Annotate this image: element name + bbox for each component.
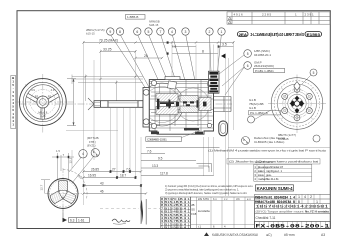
svg-text:●C): ●C) bbox=[266, 233, 272, 237]
bolt holes bbox=[282, 86, 313, 120]
svg-text:2 3 9 1: 2 3 9 1 bbox=[305, 12, 315, 16]
3 lobes bbox=[49, 180, 76, 204]
extension verticals bbox=[84, 41, 234, 205]
svg-text:#5·mm: #5·mm bbox=[284, 233, 295, 237]
housing left flange bbox=[143, 88, 149, 128]
svg-text:(SIYO) Torque amplifier mount: (SIYO) Torque amplifier mount bbox=[256, 209, 304, 213]
dashes near needle bbox=[100, 208, 139, 210]
svg-text:SLB-15: SLB-15 bbox=[149, 23, 159, 27]
balloon right mid with text bbox=[228, 146, 330, 148]
svg-text:(8YZ1): (8YZ1) bbox=[87, 143, 96, 147]
flange bottom note bbox=[278, 133, 296, 141]
svg-text:P.GBL 1-3B21: P.GBL 1-3B21 bbox=[255, 69, 274, 73]
title block part number rows bbox=[255, 194, 331, 228]
svg-text:13.3: 13.3 bbox=[152, 164, 158, 168]
svg-text:1-BB5-B: 1-BB5-B bbox=[127, 15, 138, 19]
svg-text:CLB9105 (1ke 1.B4ko): CLB9105 (1ke 1.B4ko) bbox=[254, 140, 284, 144]
svg-text:b n: b n bbox=[213, 197, 217, 201]
svg-text:MHB4675x01 BD34HIB4 1 4: MHB4675x01 BD34HIB4 1 4 bbox=[255, 196, 295, 200]
wheel spokes bbox=[26, 93, 59, 119]
svg-text:KABUSIKI KAISYA OSAKAKIKAI: KABUSIKI KAISYA OSAKAKIKAI bbox=[212, 233, 258, 237]
svg-text:(1) MeihanNM 4 puraimarida men: (1) MeihanNM 4 puraimarida menyon iru-ko… bbox=[208, 149, 327, 153]
housing body bbox=[141, 77, 214, 135]
shaft centerline bbox=[20, 103, 232, 105]
svg-text:33.25: 33.25 bbox=[103, 47, 112, 51]
center dark cluster bbox=[290, 96, 304, 114]
revision table top right bbox=[227, 12, 330, 24]
svg-text:5: 5 bbox=[148, 30, 150, 34]
right flange view bbox=[268, 75, 326, 134]
tiny spoke labels bbox=[31, 88, 55, 118]
115 deg dashed arc bbox=[63, 169, 87, 199]
svg-text:4: 4 bbox=[82, 152, 84, 156]
svg-text:ZAI SITU: ZAI SITU bbox=[198, 197, 209, 201]
big L dimension line down to needle bbox=[140, 184, 142, 224]
svg-text:8: 8 bbox=[119, 30, 121, 34]
svg-text:G1.B: G1.B bbox=[249, 106, 256, 110]
flange dashed circle bbox=[274, 81, 320, 127]
balloon leaders bbox=[111, 35, 222, 100]
signature bbox=[112, 219, 130, 222]
left wheel view bbox=[15, 74, 76, 134]
footer text below frame bbox=[204, 232, 325, 236]
svg-text:Checklist 7-11: Checklist 7-11 bbox=[256, 216, 276, 220]
base feet dark pads bbox=[151, 128, 203, 134]
svg-text:27: 27 bbox=[112, 167, 116, 171]
svg-text:d b: d b bbox=[236, 197, 240, 201]
top diamond bbox=[294, 82, 300, 91]
needle / section arrow bbox=[140, 200, 143, 224]
svg-text:2-L=4xM5x0.8(8.8T)x10 LBRKT 2E: 2-L=4xM5x0.8(8.8T)x10 LBRKT 2EA/S bbox=[251, 32, 305, 37]
svg-text:041058-20-1: 041058-20-1 bbox=[254, 53, 271, 57]
svg-text:e n: e n bbox=[247, 198, 251, 201]
output stub right of housing bbox=[214, 97, 232, 112]
housing internal horizontals bbox=[149, 82, 213, 129]
middle bottom table bbox=[191, 197, 255, 229]
svg-text:1 B15-9B B 4 1: 1 B15-9B B 4 1 bbox=[161, 225, 191, 229]
svg-text:7.6: 7.6 bbox=[147, 149, 152, 153]
svg-text:26.85: 26.85 bbox=[91, 167, 99, 171]
svg-text:PG 1-3B21 B: PG 1-3B21 B bbox=[250, 111, 268, 115]
wheel rim ring3 bbox=[26, 85, 61, 120]
fitting dark cluster on housing right top bbox=[209, 71, 220, 93]
svg-text:2EA: 2EA bbox=[239, 32, 248, 37]
svg-text:70.25 (MAX): 70.25 (MAX) bbox=[99, 38, 118, 42]
svg-text:4 9 1 6: 4 9 1 6 bbox=[234, 12, 244, 16]
shaft left arrows bbox=[88, 98, 94, 110]
svg-text:(2) Jikuuke-bu J O-ring wa kae: (2) Jikuuke-bu J O-ring wa kaeru youshib… bbox=[229, 160, 319, 164]
svg-text:3) pyotsuyo 2kotsuji de% kuure: 3) pyotsuyo 2kotsuji de% kuurero, hadeu … bbox=[165, 191, 247, 195]
flange inner circle bbox=[278, 84, 317, 123]
parts table text marks bbox=[161, 197, 191, 230]
svg-text:b15-15: b15-15 bbox=[86, 31, 95, 35]
svg-text:43: 43 bbox=[100, 181, 104, 185]
svg-text:117.8: 117.8 bbox=[160, 171, 168, 175]
balloon near flange top bbox=[310, 69, 317, 76]
svg-text:7: 7 bbox=[159, 30, 161, 34]
svg-text:FX-0B5-08-200-1: FX-0B5-08-200-1 bbox=[255, 223, 330, 230]
top dimension lines bbox=[84, 43, 234, 59]
svg-text:M5x0.8: M5x0.8 bbox=[38, 111, 47, 115]
svg-text:4: 4 bbox=[304, 195, 306, 199]
svg-text:6.3: 6.3 bbox=[70, 219, 75, 223]
spec row bbox=[255, 209, 331, 213]
left dim bbox=[41, 180, 50, 194]
svg-text:2 2 8 5: 2 2 8 5 bbox=[262, 12, 272, 16]
svg-text:5: 5 bbox=[247, 52, 249, 56]
arrow blobs on dim lines bbox=[83, 170, 142, 187]
small dark details bbox=[157, 99, 207, 110]
svg-text:2: 2 bbox=[209, 30, 211, 34]
svg-text:4.9: 4.9 bbox=[51, 88, 55, 92]
svg-text:3.5: 3.5 bbox=[222, 42, 227, 46]
section arrow top bbox=[221, 54, 226, 59]
svg-text:6: 6 bbox=[136, 30, 138, 34]
svg-text:18.7: 18.7 bbox=[120, 173, 126, 177]
svg-text:FC8: FC8 bbox=[191, 212, 197, 216]
svg-text:1: 1 bbox=[316, 200, 318, 204]
wheel rim ring2 bbox=[23, 82, 62, 121]
svg-text:2B: 2B bbox=[191, 203, 194, 207]
svg-text:CHECK HYO: CHECK HYO bbox=[255, 160, 274, 164]
svg-text:46: 46 bbox=[100, 189, 104, 193]
balloon row top bbox=[107, 28, 226, 35]
svg-text:12.7: 12.7 bbox=[40, 184, 44, 190]
L bracket right of dims bbox=[197, 164, 212, 173]
housing top protrusion bbox=[165, 77, 180, 80]
gear hatched blocks bbox=[156, 94, 178, 102]
svg-text:9: 9 bbox=[109, 30, 111, 34]
housing internal verticals bbox=[155, 80, 208, 131]
parts list table bbox=[161, 197, 191, 230]
svg-text:6: 6 bbox=[247, 64, 249, 68]
svg-text:7.6: 7.6 bbox=[126, 167, 131, 171]
top center label box bbox=[126, 15, 146, 20]
flange left notes bbox=[249, 98, 264, 110]
svg-text:2621234(NOK): 2621234(NOK) bbox=[254, 64, 274, 68]
svg-text:1.5: 1.5 bbox=[56, 149, 60, 153]
housing big left arc bbox=[141, 83, 210, 126]
svg-text:26: 26 bbox=[144, 54, 148, 58]
hub circles bbox=[285, 92, 309, 116]
flange outer circle bbox=[271, 78, 323, 130]
svg-text:1: 1 bbox=[298, 195, 300, 199]
svg-text:4.9: 4.9 bbox=[31, 88, 35, 92]
svg-text:SS: SS bbox=[191, 208, 195, 212]
svg-text:1-61: 1-61 bbox=[78, 219, 85, 223]
svg-text:5: 5 bbox=[313, 71, 315, 75]
character strip row bbox=[255, 204, 331, 209]
note band dark text bbox=[238, 32, 322, 37]
svg-text:8: 8 bbox=[202, 49, 204, 53]
bottom-left wheel view bbox=[40, 149, 88, 222]
dim slash ticks bbox=[82, 41, 234, 194]
svg-text:R5: R5 bbox=[35, 95, 39, 99]
small dims above bbox=[52, 153, 74, 179]
center notes 3 lines bbox=[165, 184, 253, 195]
svg-text:1B5708520B1423B5B1: 1B5708520B1423B5B1 bbox=[255, 205, 328, 209]
datum box below wheel bbox=[63, 209, 90, 223]
label box under housing bbox=[146, 131, 200, 142]
svg-text:4: 4 bbox=[171, 30, 173, 34]
flange centerlines bbox=[268, 103, 326, 105]
svg-text:12.2: 12.2 bbox=[69, 157, 73, 163]
shaft bbox=[94, 101, 143, 108]
svg-text:1: 1 bbox=[221, 30, 223, 34]
svg-text:No.YZ H sentaku: No.YZ H sentaku bbox=[305, 209, 329, 213]
stamp dark row bbox=[256, 185, 294, 191]
svg-text:8ko 41-L 61: 8ko 41-L 61 bbox=[266, 177, 279, 181]
drawing number box bbox=[255, 221, 331, 229]
checklist row bbox=[255, 216, 331, 221]
balloons above bottom-left wheel bbox=[66, 130, 118, 183]
svg-text:4-25: 4-25 bbox=[40, 114, 46, 118]
revision table header marks bbox=[234, 12, 315, 16]
wheel centerlines bbox=[15, 101, 74, 103]
right notes two lines bbox=[208, 149, 327, 165]
small left dim 12.2 bbox=[71, 150, 73, 168]
svg-text:KAKUNIN SUMI-4: KAKUNIN SUMI-4 bbox=[257, 186, 294, 191]
small circles in housing bbox=[151, 80, 156, 85]
checklist table right bbox=[254, 160, 312, 181]
shaft upper dim lines bbox=[72, 75, 143, 102]
svg-text:E1503: E1503 bbox=[307, 33, 321, 37]
wheel hub circle bbox=[37, 96, 49, 108]
spoke arc ring bbox=[30, 89, 55, 114]
svg-text:9.5: 9.5 bbox=[158, 156, 163, 160]
svg-text:2: 2 bbox=[310, 195, 312, 199]
svg-text:16.95: 16.95 bbox=[88, 173, 96, 177]
revision triangles bbox=[228, 17, 231, 20]
tiny label top-left of balloons bbox=[86, 28, 105, 35]
svg-text:A3: A3 bbox=[321, 233, 325, 237]
left vertical label box bbox=[11, 76, 16, 129]
vertical capsule part lower right bbox=[219, 121, 228, 136]
svg-text:3: 3 bbox=[185, 30, 187, 34]
svg-text:kurofaibu: kurofaibu bbox=[198, 209, 211, 213]
bolt circle bbox=[283, 89, 311, 117]
wheel outer rim bbox=[19, 79, 66, 126]
svg-text:R5: R5 bbox=[48, 95, 52, 99]
bottom center dimension cluster bbox=[111, 58, 229, 196]
svg-text:7.9: 7.9 bbox=[172, 45, 177, 49]
svg-text:B: B bbox=[298, 200, 300, 204]
leaders bbox=[219, 55, 244, 95]
svg-text:t 1: t 1 bbox=[198, 225, 201, 229]
wheel right dimension bbox=[73, 79, 75, 126]
svg-text:C36B4BD-15 B1: C36B4BD-15 B1 bbox=[147, 137, 167, 141]
balloons mid right with notes bbox=[219, 49, 285, 95]
